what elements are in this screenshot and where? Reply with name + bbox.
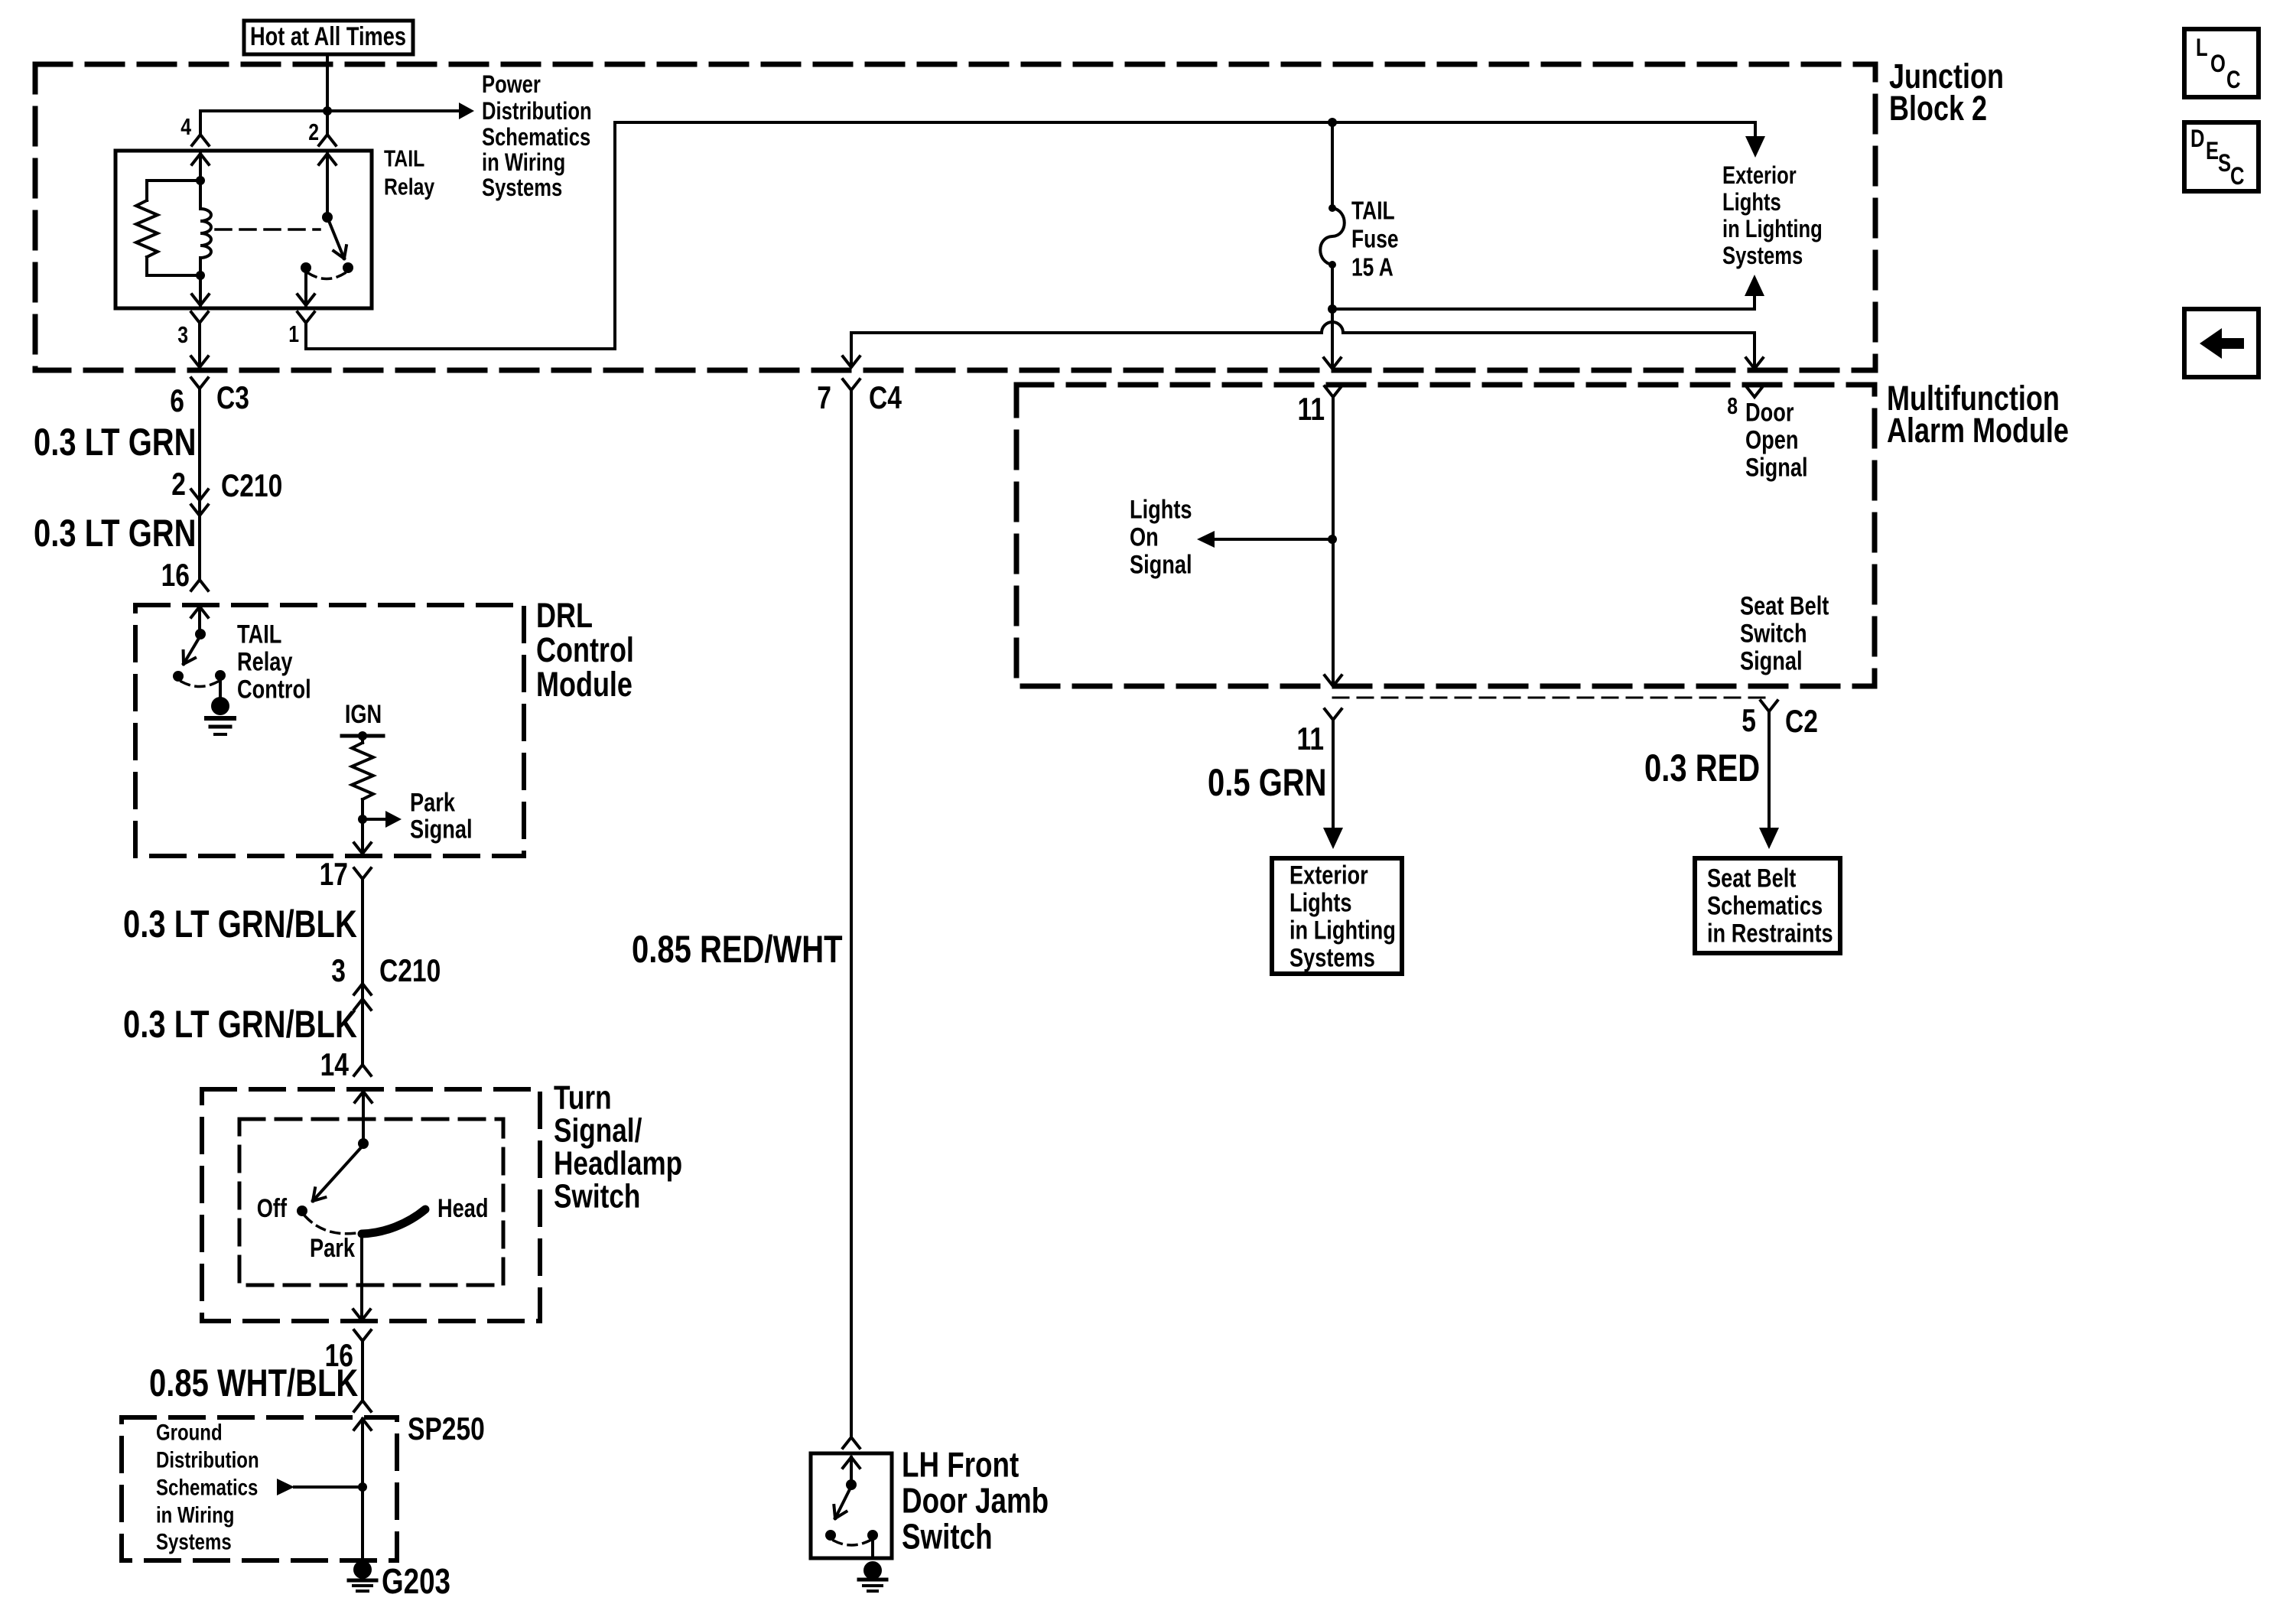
svg-text:17: 17 [320,857,348,893]
label 0.85 WHT/BLK [149,1362,359,1404]
svg-text:Signal: Signal [1740,646,1803,675]
svg-text:0.3 RED: 0.3 RED [1644,747,1760,789]
label 0.3 LT GRN (upper) [34,421,197,464]
svg-text:Lights: Lights [1289,887,1352,917]
DRL tail relay control lever [184,636,200,664]
door jamb contact open [825,1530,836,1541]
svg-text:E: E [2206,138,2219,164]
wire 0.85 WHT/BLK [361,1351,364,1400]
connector C210 pin 3 [331,954,441,1010]
label IGN [345,699,382,729]
headlamp switch lever [313,1145,363,1201]
wire pin3 to C3 [198,330,201,366]
dashed link MAM bottom to C2 [1333,697,1769,699]
svg-text:in Lighting: in Lighting [1289,915,1396,945]
wire pin1 to tail fuse feed [306,122,1755,349]
module M2 DRL Control Module dashed boundary [135,605,524,856]
DRL entry arrow pin16 [191,607,208,634]
nav box DESC [2184,122,2259,191]
wire 0.3 RED [1768,722,1771,831]
svg-text:0.3 LT GRN/BLK: 0.3 LT GRN/BLK [123,1003,357,1046]
wire pin4 drop [199,111,202,135]
svg-text:Ground: Ground [156,1419,223,1445]
svg-text:L: L [2196,34,2208,61]
label 0.3 RED [1644,747,1760,789]
inductor coil (relay coil) [200,181,211,275]
svg-text:11: 11 [1296,722,1324,757]
svg-text:Relay: Relay [384,174,435,200]
wire to power distribution [200,109,459,112]
svg-text:Systems: Systems [1722,242,1803,269]
wire fuse output to exterior lights [1332,308,1755,311]
svg-text:Signal: Signal [1130,549,1192,579]
svg-text:Schematics: Schematics [482,124,590,151]
svg-text:TAIL: TAIL [1351,197,1395,225]
node door jamb pivot [846,1479,857,1490]
DRL switch contact to ground [215,670,226,698]
label DRL Control Module [536,596,634,704]
svg-text:Relay: Relay [237,646,293,676]
connector pin 8 (MAM) [1727,386,1763,419]
svg-text:in Restraints: in Restraints [1707,918,1833,948]
svg-text:Alarm Module: Alarm Module [1887,411,2069,450]
switch contact Off [257,1193,307,1223]
svg-text:0.3 LT GRN/BLK: 0.3 LT GRN/BLK [123,903,357,945]
node coil bottom [147,271,205,280]
svg-text:Signal: Signal [410,814,473,844]
svg-text:C210: C210 [379,954,441,989]
arrow Lights On Signal [1197,531,1215,548]
svg-text:Signal/: Signal/ [554,1112,642,1150]
door jamb lever [834,1486,851,1518]
svg-text:8: 8 [1727,392,1738,418]
svg-text:O: O [2210,50,2226,77]
label 0.3 LT GRN/BLK (lower) [123,1003,357,1046]
switch exit arrow pin16 [353,1310,370,1320]
wire lights on signal [1215,538,1332,541]
splice connector SP250 [354,1401,485,1447]
connector pin 1 (relay) [288,312,314,347]
svg-text:14: 14 [320,1048,349,1083]
module M1 Multifunction Alarm Module dashed boundary [1016,385,1875,686]
node IGN tap [358,731,367,740]
label 0.3 LT GRN/BLK (upper) [123,903,357,945]
svg-text:Distribution: Distribution [482,98,592,125]
label TAIL Relay [384,145,435,200]
connector pin 7 C4 [817,379,902,416]
ground (door jamb) [859,1561,886,1591]
switch throw dashed arc [305,1216,356,1234]
relay switch throw dashed arc [308,273,345,279]
switch Head contact thick arc [362,1193,488,1234]
svg-text:C4: C4 [869,381,902,416]
svg-text:Seat Belt: Seat Belt [1740,591,1829,620]
label Power Distribution Schematics in Wiring Systems [482,71,592,201]
node fuse output junction [1328,304,1337,314]
label Multifunction Alarm Module [1887,379,2069,450]
relay coil-side entry arrow (pin 4) [192,154,209,181]
reference box Seat Belt Schematics in Restraints [1695,858,1840,953]
IGN rail [342,734,383,738]
svg-text:2: 2 [308,119,319,145]
arrow pin11 crossing JB2 [1324,358,1341,369]
svg-text:Systems: Systems [156,1528,232,1554]
wire 0.5 GRN [1332,731,1335,831]
wire 0.85 RED/WHT [850,390,853,1437]
wire 0.3 LT GRN/BLK (upper) [361,887,364,999]
svg-text:0.5 GRN: 0.5 GRN [1208,761,1327,804]
nav box LOC [2184,29,2259,97]
label Park (switch position) [310,1233,356,1263]
svg-text:Module: Module [536,665,633,704]
svg-text:16: 16 [161,558,190,594]
svg-text:G203: G203 [382,1561,450,1601]
arrow Park Signal [385,811,402,828]
svg-text:Power: Power [482,71,541,98]
svg-text:Door Jamb: Door Jamb [902,1481,1049,1521]
resistor (DRL park signal) [352,736,373,819]
relay switch lever [327,217,346,259]
svg-text:0.85 RED/WHT: 0.85 RED/WHT [632,928,843,971]
svg-text:Control: Control [237,674,311,704]
svg-text:Switch: Switch [902,1517,993,1557]
wire 0.3 LT GRN/BLK (lower) [361,999,364,1065]
DRL switch contact Off [173,671,184,682]
svg-text:Fuse: Fuse [1351,226,1399,253]
arrow into exterior lights box [1323,828,1343,849]
svg-text:0.3 LT GRN: 0.3 LT GRN [34,512,197,555]
wire hot feed vertical (pin 2 feed) [326,54,329,135]
svg-text:Park: Park [310,1233,356,1263]
label 0.3 LT GRN (lower) [34,512,197,555]
node DRL switch pivot [195,629,206,639]
svg-text:6: 6 [170,384,184,419]
relay switch entry arrow (pin 2) [319,154,336,217]
ground (DRL internal) [207,697,234,734]
headlamp switch inner dashed boundary [239,1119,503,1285]
svg-text:5: 5 [1742,704,1756,739]
svg-text:C: C [2230,163,2245,190]
svg-text:SP250: SP250 [408,1412,485,1447]
connector pin 11 (MAM top) [1297,386,1342,428]
svg-text:Turn: Turn [554,1079,612,1117]
node relay switch pivot [322,212,333,223]
wire pin11 through MAM [1332,397,1335,685]
connector pin 5 C2 [1742,701,1818,740]
svg-text:4: 4 [180,113,191,139]
svg-text:C3: C3 [216,381,249,416]
node park signal tap [358,815,367,824]
svg-text:C210: C210 [221,469,282,504]
node coil top [196,176,205,185]
DRL exit arrow pin17 [354,819,371,854]
svg-text:Distribution: Distribution [156,1446,259,1472]
arrow down to Exterior Lights (top) [1745,122,1765,158]
connector pin 11 (MAM bottom) [1296,709,1342,757]
label TAIL Fuse 15 A [1351,197,1399,281]
svg-text:D: D [2190,125,2204,152]
svg-text:15 A: 15 A [1351,254,1394,281]
node lights-on tap [1328,535,1337,544]
label Exterior Lights in Lighting Systems (top right) [1722,162,1823,269]
node ground splice [358,1482,367,1492]
switch S1 LH Front Door Jamb Switch box [811,1453,892,1558]
arrow C4 crossing JB2 [843,356,860,367]
connector pin 2 (relay) [308,119,336,145]
DRL switch throw dashed arc [181,682,218,687]
resistor (relay suppression) [136,200,158,275]
node fuse feed junction [1328,118,1337,127]
label 0.5 GRN [1208,761,1327,804]
svg-text:Signal: Signal [1745,452,1808,482]
svg-text:Lights: Lights [1722,189,1781,216]
connector pin 6 C3 [170,378,249,419]
fuse F1 TAIL Fuse 15A [1320,122,1345,309]
svg-text:Exterior: Exterior [1722,162,1797,189]
svg-text:IGN: IGN [345,699,382,729]
arrow up to Exterior Lights (bottom) [1745,275,1764,309]
wire fuse output to MAM pin 11 [1331,309,1334,367]
module M3 Turn Signal/Headlamp Switch outer dashed boundary [202,1089,540,1321]
svg-text:Lights: Lights [1130,494,1192,524]
wire coil top to resistor [147,181,200,200]
label TAIL Relay Control [237,619,311,704]
arrow into seat belt box [1759,828,1779,849]
ground distribution dashed boundary [122,1417,397,1560]
node battery feed junction [323,106,332,116]
door jamb contact to ground [867,1530,878,1558]
svg-text:0.85 WHT/BLK: 0.85 WHT/BLK [149,1362,359,1404]
connector pin 3 (relay) [177,312,208,348]
svg-text:Park: Park [410,787,456,817]
relay coil exit arrow (pin 3) [192,275,209,305]
svg-text:Open: Open [1745,425,1798,454]
svg-text:in Wiring: in Wiring [482,149,565,176]
svg-text:11: 11 [1297,392,1325,428]
label Ground Distribution Schematics in Wiring Systems [156,1419,259,1554]
ground G203 [349,1560,450,1601]
svg-text:Head: Head [437,1193,488,1223]
arrow to power distribution schematics [459,103,474,119]
arrow pin8 crossing JB2 [1746,358,1763,369]
arrow ground distribution pointer [277,1479,363,1495]
connector door jamb switch [843,1437,860,1448]
connector pin 4 (relay) [180,113,209,145]
switch entry arrow pin14 [355,1092,372,1144]
relay switch contact (NO) [343,262,353,273]
switch park wire down [360,1234,363,1320]
wire door-open-signal branch with hop [851,322,1755,367]
svg-text:C2: C2 [1785,704,1818,740]
junction block J1 'Junction Block 2' dashed boundary [35,64,1875,370]
svg-text:Off: Off [257,1193,288,1223]
svg-text:1: 1 [288,321,299,347]
svg-text:in Wiring: in Wiring [156,1502,234,1528]
svg-text:On: On [1130,522,1159,552]
power feed label box 'Hot at All Times' [244,21,413,54]
connector pin 17 [320,857,371,893]
node headlamp switch pivot [358,1138,369,1149]
relay switch exit arrow (pin 1) [298,272,314,305]
relay mech link dashed [216,228,320,231]
svg-text:Hot at All Times: Hot at All Times [250,21,406,51]
svg-text:Headlamp: Headlamp [554,1145,682,1183]
connector pin 16 (switch out) [325,1330,371,1374]
wire 0.3 LT GRN (upper) [198,389,201,516]
svg-text:0.3 LT GRN: 0.3 LT GRN [34,421,197,464]
svg-text:Switch: Switch [1740,618,1807,648]
svg-text:2: 2 [171,467,186,503]
svg-text:S: S [2218,150,2231,177]
wire 0.3 LT GRN (lower) [198,516,201,580]
label Park Signal [410,787,473,844]
svg-text:Schematics: Schematics [156,1474,258,1500]
svg-text:Systems: Systems [1289,942,1375,972]
arrow pin3 crossing JB2 [191,356,208,367]
svg-text:TAIL: TAIL [384,145,424,171]
wire park signal [363,818,385,821]
door jamb entry arrow [843,1457,860,1485]
connector pin 14 [320,1048,371,1083]
label Seat Belt Switch Signal [1740,591,1829,675]
svg-text:DRL: DRL [536,596,593,635]
svg-text:C: C [2226,67,2241,93]
arrow pin11 exit crossing MAM [1325,675,1342,686]
svg-text:TAIL: TAIL [237,619,281,649]
nav box back arrow [2184,309,2259,377]
label Junction Block 2 [1889,57,2004,128]
svg-text:Systems: Systems [482,174,562,201]
relay switch contact (common out) [301,262,311,273]
svg-text:Block 2: Block 2 [1889,89,1987,128]
svg-text:LH Front: LH Front [902,1445,1019,1485]
door jamb throw dashed arc [834,1541,870,1545]
svg-text:3: 3 [177,321,188,347]
label LH Front Door Jamb Switch [902,1445,1049,1557]
ground box entry arrow [354,1419,371,1562]
relay K1 TAIL Relay box [115,151,372,308]
svg-text:3: 3 [331,954,346,989]
svg-text:Schematics: Schematics [1707,890,1823,920]
label Door Open Signal [1745,397,1808,482]
svg-text:Control: Control [536,630,634,669]
label 0.85 RED/WHT [632,928,843,971]
svg-text:Switch: Switch [554,1178,640,1215]
svg-text:Door: Door [1745,397,1794,427]
label Lights On Signal [1130,494,1192,579]
connector pin 16 (DRL) [161,558,208,594]
connector C210 pin 2 [171,467,282,516]
svg-text:7: 7 [817,381,831,416]
svg-text:in Lighting: in Lighting [1722,216,1823,242]
svg-text:Exterior: Exterior [1289,860,1368,890]
reference box Exterior Lights in Lighting Systems [1272,858,1402,974]
label Turn Signal/Headlamp Switch [554,1079,682,1215]
svg-text:Seat Belt: Seat Belt [1707,863,1796,893]
